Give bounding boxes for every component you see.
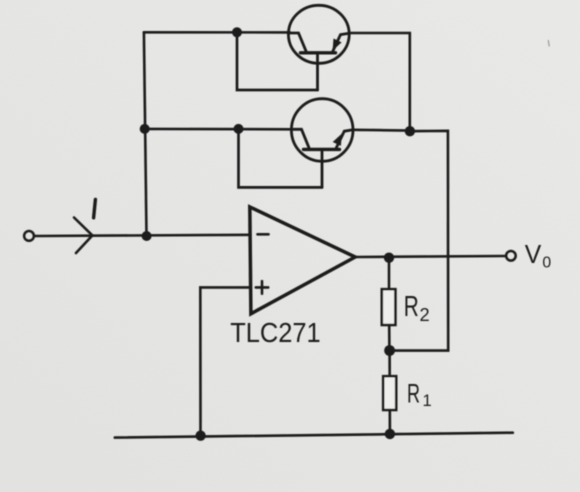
paper background [0,0,1,1]
junction emitter bus node [405,126,415,136]
minus sign (inverting input) [258,233,269,236]
wire rail 2 [145,128,292,131]
ground rail [115,433,513,438]
junction Q1 base-collector node [232,27,242,37]
wire Q1 emitter to right bus [349,33,410,131]
junction rail2 / left bus [140,124,150,134]
label I [94,200,96,218]
svg-text:V: V [525,239,542,269]
junction on ground rail (op-amp +) [195,431,205,441]
wire non-inverting input to ground rail [200,287,250,435]
op-amp U1 TLC271 [250,207,355,314]
junction input node [142,231,152,241]
wire input to inverting input [34,235,250,236]
junction on ground rail (R1) [385,429,395,439]
svg-text:R: R [404,291,419,323]
scan speck artifact [547,41,550,47]
svg-text:2: 2 [420,304,430,325]
wire R2 bottom lead [388,325,391,351]
svg-text:R: R [407,379,420,409]
junction output node [384,253,394,263]
svg-text:0: 0 [542,254,551,271]
resistor R2 [382,289,396,325]
resistor R1 [383,376,396,410]
transistor Q2 [291,99,353,188]
wire R1 top lead [388,351,391,377]
wire Q2 base loop [239,129,323,188]
wire feedback from emitters to R1/R2 node [391,131,449,351]
svg-text:TLC271: TLC271 [230,317,321,348]
plus sign (non-inverting input) [256,281,268,293]
wire R2 top lead [388,258,391,290]
wire output [355,256,506,257]
wire Q1 base loop [237,32,318,90]
wire left vertical bus [144,32,147,236]
transistor Q1 [288,5,349,90]
wire top rail [144,31,290,34]
junction feedback node R1/R2 [384,345,395,356]
current arrow [74,218,92,254]
wire R1 bottom lead [388,410,391,434]
svg-text:1: 1 [423,392,432,410]
input terminal [24,231,34,241]
junction Q2 base-collector node [234,124,244,134]
output terminal [506,251,516,261]
wire Q2 emitter [353,129,410,132]
